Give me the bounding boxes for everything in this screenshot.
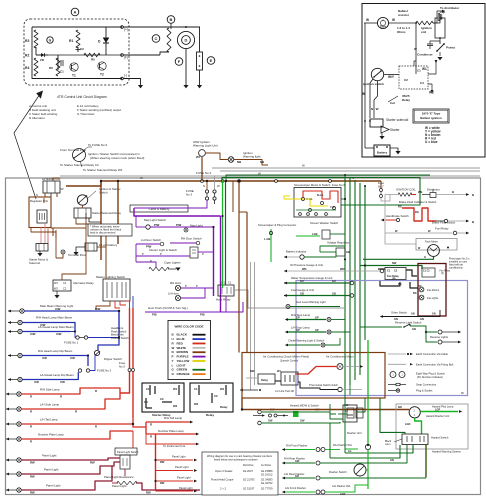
- svg-text:P: P: [150, 259, 152, 263]
- svg-text:W1: W1: [221, 281, 225, 285]
- svg-text:12 volt battery: 12 volt battery: [99, 243, 118, 247]
- node F label circle: [175, 58, 183, 66]
- svg-text:C2: C2: [214, 394, 218, 398]
- wire brown long trunk to hazard: [242, 398, 409, 410]
- node B label circle: [167, 16, 175, 24]
- legend earth via bolt: [388, 363, 406, 365]
- wire blue bus vertical: [118, 311, 120, 338]
- battery box: [374, 145, 390, 156]
- starter relay box: [142, 383, 184, 412]
- svg-text:RH Horn: RH Horn: [170, 281, 182, 285]
- wire green top trunk: [222, 178, 344, 182]
- transistor T2: [98, 62, 106, 70]
- svg-text:L-GB: L-GB: [264, 237, 270, 241]
- svg-text:U/W: U/W: [30, 332, 36, 336]
- note box automatic transmission: [88, 224, 132, 236]
- svg-text:GN: GN: [390, 459, 394, 462]
- wiper terminals: [302, 198, 305, 201]
- wire bottom rail: [32, 27, 122, 79]
- svg-text:Screen Washer Switch: Screen Washer Switch: [310, 221, 339, 225]
- svg-text:4.2 Litre Twin 90: 4.2 Litre Twin 90: [275, 389, 295, 393]
- svg-text:NB: NB: [237, 160, 241, 164]
- wire light green main: [367, 340, 369, 445]
- svg-text:NW: NW: [250, 369, 255, 373]
- svg-text:W1: W1: [173, 387, 178, 391]
- wire top rail: [32, 26, 122, 28]
- svg-text:GW: GW: [300, 419, 305, 423]
- control unit dashed enclosure A: [24, 19, 129, 85]
- svg-text:Horn Push (On/Off & Turn Sig.): Horn Push (On/Off & Turn Sig.): [148, 306, 188, 310]
- snap connector row small: [253, 415, 262, 417]
- svg-text:W: W: [302, 164, 305, 168]
- svg-text:Choke Warning Light & Switch: Choke Warning Light & Switch: [288, 339, 325, 343]
- svg-text:Open 2 Seater: Open 2 Seater: [215, 469, 233, 473]
- resistor R6: [56, 58, 60, 76]
- svg-text:Horn Relay: Horn Relay: [216, 298, 231, 302]
- svg-text:Snap Connectors: Snap Connectors: [416, 383, 437, 387]
- fan relay L inner box: [422, 268, 435, 277]
- svg-text:R: R: [150, 423, 152, 427]
- wire gray pair center: [250, 262, 252, 390]
- svg-text:R: R: [95, 389, 97, 393]
- svg-text:Reverse Light Switch: Reverse Light Switch: [395, 321, 422, 325]
- green bundle verticals: [344, 175, 346, 390]
- AC comp box 2: [281, 372, 298, 385]
- wire purple horn rows: [181, 287, 214, 289]
- fuse no 4 symbol: [213, 190, 216, 193]
- svg-text:LG: LG: [348, 450, 352, 453]
- svg-text:P: P: [160, 252, 162, 256]
- wire brown 3AW down: [201, 157, 203, 181]
- wire battery to ground: [199, 27, 201, 52]
- svg-text:Heated WDW & Switch: Heated WDW & Switch: [290, 404, 319, 408]
- svg-text:W1: W1: [220, 387, 225, 391]
- battery ground: [390, 148, 398, 151]
- chassis table box: [202, 452, 278, 495]
- svg-text:No 5: No 5: [119, 365, 125, 369]
- svg-text:Wiring diagram for use on cars: Wiring diagram for use on cars bearing c…: [207, 454, 273, 458]
- svg-text:R2: R2: [25, 54, 29, 58]
- svg-text:U/W: U/W: [95, 307, 101, 311]
- wire coil feed down: [415, 23, 417, 74]
- svg-text:1E 34583: 1E 34583: [261, 478, 273, 482]
- svg-text:Earth Connection Via Fixing Bo: Earth Connection Via Fixing Bolt: [416, 362, 454, 366]
- svg-text:Condenser: Condenser: [417, 53, 434, 57]
- svg-text:Master Lighting Switch: Master Lighting Switch: [96, 275, 125, 279]
- svg-text:1E 21783: 1E 21783: [243, 478, 255, 482]
- svg-text:C2: C2: [80, 47, 84, 51]
- gray row right of horn: [240, 389, 258, 391]
- legend connections box lavender: [296, 281, 468, 396]
- svg-text:P/B: P/B: [152, 313, 157, 317]
- svg-text:G: G: [49, 38, 52, 42]
- svg-text:R: R: [75, 410, 77, 414]
- svg-text:lead is disconnected: lead is disconnected: [90, 231, 116, 235]
- svg-text:GR: GR: [295, 475, 299, 478]
- svg-text:T2: T2: [100, 73, 104, 77]
- svg-text:RW: RW: [160, 460, 165, 464]
- svg-text:C: C: [155, 36, 158, 41]
- svg-text:L/H Stop Lamp: L/H Stop Lamp: [291, 326, 310, 330]
- svg-text:R: R: [30, 395, 32, 399]
- thermistor G: [47, 37, 53, 43]
- svg-text:Fuse No 6: Fuse No 6: [332, 183, 345, 187]
- svg-text:P: P: [142, 252, 144, 256]
- svg-text:Starter: Starter: [390, 128, 401, 132]
- svg-text:W/Y: W/Y: [388, 75, 395, 79]
- svg-text:R/H Stop Lamp: R/H Stop Lamp: [291, 313, 311, 317]
- junction dots: [100, 180, 102, 182]
- svg-text:RG: RG: [415, 210, 419, 214]
- svg-text:P: P: [185, 284, 187, 288]
- capacitor C1: [57, 55, 59, 70]
- green thick row to fan: [360, 266, 422, 270]
- svg-text:LGP: LGP: [435, 409, 440, 412]
- wire gray turn sig row: [234, 290, 344, 308]
- wire green flasher down: [415, 418, 422, 434]
- svg-text:L/H Side Lamp: L/H Side Lamp: [40, 403, 60, 407]
- fuse no 2: [78, 369, 81, 372]
- svg-text:N: N: [36, 193, 38, 197]
- svg-text:B: B: [472, 220, 474, 224]
- svg-text:BG: BG: [398, 283, 402, 286]
- terminal (+): [121, 26, 124, 29]
- svg-text:L/H Head Lamp Dip Beam: L/H Head Lamp Dip Beam: [40, 373, 74, 377]
- svg-text:P/W: P/W: [154, 223, 160, 227]
- svg-text:T1: T1: [72, 74, 76, 78]
- svg-text:P: P: [202, 252, 204, 256]
- svg-text:U/W: U/W: [55, 307, 61, 311]
- svg-text:Tach: Tach: [380, 25, 387, 29]
- svg-text:GP: GP: [315, 316, 319, 320]
- svg-text:listed below and subsequent nu: listed below and subsequent numbers: [214, 458, 258, 462]
- ignition starter switch: [77, 195, 87, 205]
- starter: [381, 126, 389, 133]
- svg-text:WN: WN: [302, 267, 306, 271]
- svg-text:Cut: Cut: [390, 101, 395, 105]
- svg-text:(-): (-): [124, 74, 127, 78]
- svg-text:Voltage Regulator: Voltage Regulator: [327, 241, 349, 245]
- svg-text:Handbrake Switch: Handbrake Switch: [386, 214, 409, 218]
- ballast resistor: [416, 21, 433, 25]
- svg-text:From Terminal Post: From Terminal Post: [60, 148, 86, 152]
- tach housing: [416, 239, 457, 251]
- svg-text:WB: WB: [418, 190, 422, 194]
- wire lighting switch feeds: [105, 262, 107, 279]
- svg-text:1970 'E' Type: 1970 'E' Type: [422, 112, 441, 116]
- starter solenoid: [370, 119, 383, 127]
- svg-text:A: A: [74, 10, 77, 15]
- svg-text:GW: GW: [268, 419, 273, 423]
- svg-text:Terminal Post: Terminal Post: [68, 253, 86, 257]
- resistor R3: [34, 30, 38, 48]
- svg-text:1E 2037: 1E 2037: [243, 469, 254, 473]
- svg-text:Panel Light: Panel Light: [112, 484, 127, 488]
- svg-text:Earth Connection Via Cable: Earth Connection Via Cable: [416, 352, 449, 356]
- svg-text:RH Door Switch: RH Door Switch: [181, 237, 202, 241]
- svg-text:N: N: [203, 184, 205, 188]
- svg-text:L/H Head Lamp Main Beam: L/H Head Lamp Main Beam: [38, 325, 74, 329]
- resistor R4: [34, 58, 38, 76]
- svg-text:Ohms: Ohms: [397, 30, 406, 34]
- maroon fan box: [418, 264, 446, 317]
- svg-text:Oil Pressure Gauge & Unit: Oil Pressure Gauge & Unit: [290, 263, 323, 267]
- svg-text:R4: R4: [25, 66, 29, 70]
- svg-text:coil: coil: [421, 30, 426, 34]
- wire color code box: [168, 321, 211, 380]
- wire W to tach: [364, 22, 377, 24]
- svg-text:Flasher Unit: Flasher Unit: [347, 431, 362, 435]
- wire green wiper to bundle: [341, 198, 345, 200]
- wire black AC zigzag: [275, 380, 281, 382]
- wire B down left: [364, 31, 366, 140]
- svg-text:LGB: LGB: [312, 232, 318, 236]
- svg-text:Warning Light Unit: Warning Light Unit: [193, 144, 218, 148]
- svg-text:FUSE No 1: FUSE No 1: [64, 341, 79, 345]
- svg-text:Hazard Warning System: Hazard Warning System: [432, 450, 462, 454]
- svg-text:ORANGE: ORANGE: [177, 372, 190, 376]
- svg-text:LGN: LGN: [405, 423, 410, 426]
- svg-text:conn.: conn.: [385, 443, 391, 446]
- svg-text:RW: RW: [30, 475, 35, 479]
- svg-text:(Pin Numbers indicated): (Pin Numbers indicated): [417, 376, 443, 379]
- svg-text:RH Drive: RH Drive: [243, 463, 254, 467]
- wire brown vertical x233: [232, 181, 234, 212]
- tachometer circle: [377, 17, 388, 28]
- svg-text:Hazard Flasher Unit: Hazard Flasher Unit: [426, 414, 449, 418]
- svg-text:R/H Side Lamp: R/H Side Lamp: [40, 388, 60, 392]
- svg-text:C1: C1: [194, 387, 198, 391]
- svg-text:R1: R1: [69, 39, 73, 43]
- svg-text:P/B: P/B: [200, 313, 205, 317]
- svg-text:Fuel Relay: Fuel Relay: [435, 227, 449, 231]
- svg-text:R: R: [30, 410, 32, 414]
- callout ignition starter switch detail: [73, 149, 86, 162]
- svg-text:2 + 2: 2 + 2: [220, 487, 227, 491]
- svg-text:GU: GU: [300, 279, 304, 283]
- regulator unit box: [29, 197, 51, 228]
- node A label circle: [71, 8, 79, 16]
- svg-text:Other Switch: Other Switch: [391, 311, 407, 315]
- svg-text:Plug & Socket: Plug & Socket: [416, 389, 433, 393]
- svg-text:Distributor: Distributor: [427, 188, 440, 192]
- svg-text:C2: C2: [63, 287, 67, 291]
- battery E: [197, 52, 203, 70]
- svg-text:R: R: [95, 425, 97, 429]
- svg-text:G Thermistor: G Thermistor: [77, 112, 94, 116]
- wire green tach down: [363, 256, 434, 259]
- wire purple map light row: [136, 226, 146, 228]
- svg-text:Ballast ignition: Ballast ignition: [420, 116, 442, 120]
- annotation arrow to regulator: [14, 94, 40, 199]
- wire brown to fuse7: [380, 181, 382, 189]
- wire dark green from switch: [380, 398, 405, 434]
- wire red handbrake zigzag: [402, 208, 436, 221]
- svg-text:LGR: LGR: [340, 493, 345, 496]
- svg-text:W: W: [140, 176, 143, 180]
- svg-text:Relay: Relay: [402, 98, 410, 102]
- svg-text:R5: R5: [91, 58, 95, 62]
- svg-text:Panel Light: Panel Light: [42, 454, 57, 458]
- wire to right edge B: [436, 194, 466, 196]
- svg-text:C1: C1: [63, 281, 67, 285]
- svg-text:U/R: U/R: [60, 380, 65, 384]
- hazard switch box: [402, 434, 428, 445]
- small comp boxes left of hazard: [347, 408, 354, 418]
- svg-text:R6: R6: [49, 66, 53, 70]
- wire battery leads: [76, 247, 85, 252]
- svg-text:NO: NO: [398, 405, 402, 409]
- svg-text:GP: GP: [296, 328, 300, 332]
- svg-text:Flasher Switch: Flasher Switch: [329, 470, 347, 474]
- ground below starter: [381, 133, 383, 136]
- wire brown long vertical x247: [246, 212, 248, 353]
- svg-text:Relay: Relay: [261, 378, 268, 382]
- svg-text:Water Temperature Gauge & Unit: Water Temperature Gauge & Unit: [291, 276, 333, 280]
- wire fuse feeds: [206, 181, 208, 190]
- wire green center pair: [222, 181, 224, 288]
- svg-text:Cigar Lighter: Cigar Lighter: [164, 261, 181, 265]
- wire black fan zigzag: [378, 268, 385, 270]
- wire light green pilot: [420, 411, 458, 413]
- wire red AC: [295, 367, 337, 375]
- terminal (F): [121, 54, 124, 57]
- svg-text:No 3: No 3: [186, 193, 192, 197]
- svg-text:resistor: resistor: [398, 13, 410, 17]
- svg-text:N-LG: N-LG: [317, 193, 323, 197]
- wire white pair right: [212, 167, 480, 169]
- svg-text:Panel Light: Panel Light: [179, 486, 193, 490]
- svg-text:E: E: [210, 58, 213, 63]
- svg-text:W: W: [414, 47, 417, 51]
- svg-text:(When steering column lock (wh: (When steering column lock (when fitted): [90, 156, 144, 160]
- svg-text:Screenwiper Motor & Switch: Screenwiper Motor & Switch: [294, 183, 331, 187]
- svg-text:R: R: [30, 425, 32, 429]
- svg-text:Fan Motors: Fan Motors: [427, 289, 440, 292]
- wire blue main beam row: [24, 310, 119, 312]
- svg-text:W2: W2: [54, 287, 58, 291]
- wire red wiper loop: [303, 191, 338, 203]
- wiper bottom terminals: [299, 213, 302, 216]
- capacitor C2: [77, 47, 79, 52]
- svg-text:G: G: [424, 255, 426, 259]
- svg-text:W: W: [366, 18, 369, 22]
- svg-text:Quench Control: Quench Control: [280, 359, 299, 363]
- svg-text:RW: RW: [146, 491, 151, 495]
- green right loop: [341, 178, 420, 206]
- svg-text:Warning light: Warning light: [243, 155, 261, 159]
- wire (-) to ground: [123, 79, 141, 86]
- svg-text:Regulator Unit: Regulator Unit: [30, 199, 48, 203]
- node C label circle: [152, 35, 160, 43]
- svg-text:IGNITION COIL: IGNITION COIL: [396, 188, 416, 192]
- node dots top right: [344, 174, 346, 176]
- svg-text:D: D: [185, 38, 188, 43]
- svg-text:NP: NP: [60, 187, 64, 191]
- svg-text:1E 15889: 1E 15889: [261, 469, 273, 473]
- fan motors: [419, 287, 424, 292]
- svg-text:B: B: [170, 17, 173, 22]
- svg-text:C1: C1: [417, 69, 421, 73]
- svg-text:C2: C2: [404, 78, 408, 82]
- wire green webs bottom center: [344, 390, 346, 453]
- wire brown reg down pair: [52, 228, 54, 237]
- wire tach to ballast: [389, 22, 417, 24]
- wire from (+) to battery rail: [123, 26, 200, 28]
- svg-text:Map Light Switch: Map Light Switch: [144, 218, 166, 222]
- AC relay box: [258, 374, 275, 384]
- svg-text:R/H Tail Lamp: R/H Tail Lamp: [164, 416, 182, 420]
- wire yellow wiper: [290, 199, 328, 206]
- tachometer main: [428, 245, 440, 257]
- main diagram border: [6, 178, 481, 495]
- svg-text:WN: WN: [340, 267, 344, 271]
- svg-text:W: W: [392, 18, 395, 22]
- svg-text:U/W: U/W: [56, 332, 62, 336]
- green connector block: [293, 411, 299, 417]
- svg-text:Starter solenoid: Starter solenoid: [386, 118, 409, 122]
- svg-text:W2: W2: [194, 402, 199, 406]
- svg-text:4TR Control Unit Circuit Diagr: 4TR Control Unit Circuit Diagram: [57, 95, 107, 99]
- svg-text:Fixed Head Coupe: Fixed Head Coupe: [211, 478, 234, 482]
- legend 8 way plug: [390, 372, 396, 378]
- svg-text:1E 16012: 1E 16012: [261, 473, 273, 477]
- svg-text:Dipper Switch: Dipper Switch: [104, 357, 122, 361]
- starter solenoid relay box: [74, 208, 91, 218]
- relay 35/25 dashed box: [399, 66, 428, 89]
- svg-text:Panel Light Resistance: Panel Light Resistance: [104, 475, 134, 479]
- svg-text:C1 C2: C1 C2: [423, 271, 430, 273]
- svg-text:(+): (+): [124, 28, 128, 32]
- points: [439, 38, 441, 44]
- wire pink starter leads: [40, 228, 42, 244]
- svg-text:U = blue: U = blue: [425, 140, 438, 144]
- svg-text:Number Plate Lamp: Number Plate Lamp: [158, 429, 184, 433]
- svg-text:R/H Head Lamp Dip Beam: R/H Head Lamp Dip Beam: [38, 349, 73, 353]
- svg-text:D Alternator: D Alternator: [29, 116, 45, 120]
- relay box 2: [190, 383, 233, 412]
- svg-text:Panel Light: Panel Light: [177, 476, 191, 480]
- svg-text:Map Light: Map Light: [190, 224, 203, 228]
- svg-text:GP: GP: [315, 328, 319, 332]
- svg-text:W2: W2: [173, 404, 178, 408]
- fan lights: [419, 295, 424, 300]
- svg-text:GU: GU: [332, 279, 336, 283]
- svg-text:To Starter Solenoid Relay C2: To Starter Solenoid Relay C2: [60, 163, 99, 167]
- fan relay R box: [385, 268, 406, 280]
- svg-text:LH Horn: LH Horn: [168, 292, 179, 296]
- svg-text:B: B: [472, 193, 474, 197]
- svg-text:Hazard Switch: Hazard Switch: [431, 436, 449, 440]
- wire brown long vertical x239: [238, 181, 240, 353]
- svg-text:RW: RW: [30, 491, 35, 495]
- svg-text:FUSE No 4: FUSE No 4: [196, 171, 212, 175]
- svg-text:Brake Fluid Indicator & Switch: Brake Fluid Indicator & Switch: [399, 200, 437, 204]
- hazard system box: [396, 404, 468, 449]
- relay wires: [384, 74, 399, 76]
- wire regulator leads brown: [31, 228, 56, 239]
- svg-text:R: R: [150, 435, 152, 439]
- wire white trunk top: [60, 175, 480, 177]
- svg-text:W: W: [376, 107, 379, 111]
- svg-text:Screenwiper & Plug Connector: Screenwiper & Plug Connector: [258, 223, 296, 227]
- transistor T1: [70, 63, 78, 71]
- alternator relay box: [53, 280, 71, 291]
- svg-text:RW: RW: [160, 481, 165, 485]
- ignition coil: [438, 13, 442, 21]
- wire switch leads brown: [82, 205, 84, 208]
- svg-text:R/H Flasher W/L: R/H Flasher W/L: [333, 443, 353, 447]
